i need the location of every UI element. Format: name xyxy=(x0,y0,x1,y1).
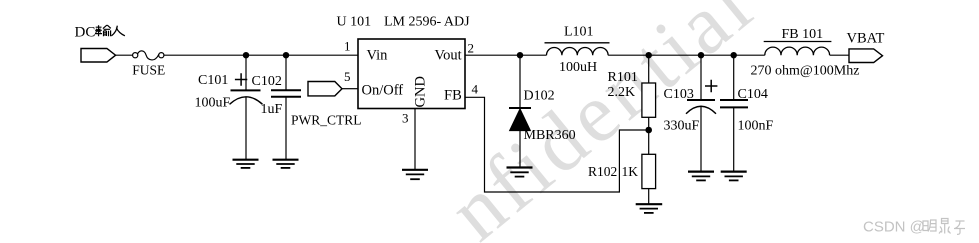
svg-text:L101: L101 xyxy=(564,25,594,40)
ground below U101 xyxy=(402,170,428,179)
resistor R102 1K xyxy=(642,130,656,204)
wire GND pin 3 down xyxy=(414,109,416,170)
svg-text:FB: FB xyxy=(444,88,462,104)
resistor R101 2.2K xyxy=(642,55,656,130)
junction at C101 xyxy=(243,52,249,58)
svg-text:DC: DC xyxy=(75,25,96,41)
wire Vout pin2 to inductor xyxy=(465,54,547,56)
junction at D102 xyxy=(517,52,523,58)
inductor L101 xyxy=(545,43,610,55)
svg-text:100uF: 100uF xyxy=(195,96,231,111)
watermark Confidential (decorative) xyxy=(432,0,771,243)
label C102 value 1uF xyxy=(252,74,283,117)
svg-text:C102: C102 xyxy=(252,74,282,89)
svg-text:C101: C101 xyxy=(198,73,228,88)
svg-text:2: 2 xyxy=(468,41,475,56)
svg-text:U 101: U 101 xyxy=(337,15,372,30)
svg-text:Vout: Vout xyxy=(435,48,462,64)
svg-text:1: 1 xyxy=(344,39,351,54)
capacitor C103 330uF xyxy=(686,55,717,171)
svg-text:VBAT: VBAT xyxy=(847,31,885,47)
fuse F (FUSE) xyxy=(133,51,164,60)
svg-text:FUSE: FUSE xyxy=(132,63,165,78)
junction at R101 xyxy=(646,52,652,58)
ground below C103 xyxy=(688,172,714,181)
svg-text:Vin: Vin xyxy=(367,48,389,64)
node DC input connector xyxy=(81,49,116,63)
ferrite bead FB101 xyxy=(764,42,832,56)
svg-text:C103: C103 xyxy=(664,87,694,102)
svg-text:4: 4 xyxy=(472,82,479,97)
svg-text:100uH: 100uH xyxy=(559,60,597,75)
svg-text:LM 2596- ADJ: LM 2596- ADJ xyxy=(384,15,470,30)
node PWR_CTRL connector xyxy=(308,82,358,96)
ground below C104 xyxy=(721,172,747,181)
svg-text:D102: D102 xyxy=(524,89,555,104)
wire DC connector to fuse xyxy=(116,54,133,56)
svg-text:C104: C104 xyxy=(738,87,768,102)
junction at C102 xyxy=(283,52,289,58)
svg-text:R101: R101 xyxy=(608,70,638,85)
watermark CSDN @明泉子 (decorative) xyxy=(863,219,965,236)
svg-text:FB 101: FB 101 xyxy=(782,27,824,42)
wire inductor to output rail xyxy=(608,54,765,56)
ground below D102 xyxy=(507,168,533,177)
label C101 value 100uF xyxy=(195,73,231,111)
svg-text:nfidential: nfidential xyxy=(432,0,771,243)
svg-text:On/Off: On/Off xyxy=(362,83,404,99)
svg-text:1K: 1K xyxy=(622,164,639,179)
svg-text:270 ohm@100Mhz: 270 ohm@100Mhz xyxy=(751,64,860,79)
diode D102 MBR360 xyxy=(509,55,531,167)
capacitor C102 xyxy=(271,55,301,159)
wire FB pin4 to feedback node xyxy=(465,97,649,192)
junction R101/R102 feedback node xyxy=(645,127,652,134)
ground below R102 xyxy=(636,204,663,213)
capacitor C104 100nF xyxy=(720,55,748,171)
svg-text:PWR_CTRL: PWR_CTRL xyxy=(291,113,362,128)
svg-text:MBR360: MBR360 xyxy=(524,128,576,143)
capacitor C101 xyxy=(230,55,263,159)
svg-text:100nF: 100nF xyxy=(738,119,774,134)
wire bead to VBAT xyxy=(830,54,849,56)
svg-text:3: 3 xyxy=(402,111,409,126)
svg-text:2.2K: 2.2K xyxy=(608,85,636,100)
svg-text:5: 5 xyxy=(344,69,351,84)
wire input rail fuse to U101 pin1 xyxy=(164,54,358,56)
label DC输入 xyxy=(75,25,125,41)
op-amp U101 LM2596-ADJ body xyxy=(358,39,465,109)
junction at C104 xyxy=(731,52,737,58)
svg-text:1uF: 1uF xyxy=(261,102,283,117)
svg-text:GND: GND xyxy=(413,76,429,107)
ground below C102 xyxy=(273,160,299,168)
node VBAT connector xyxy=(849,49,883,63)
junction at C103 xyxy=(698,52,704,58)
svg-text:R102: R102 xyxy=(588,164,617,179)
svg-text:CSDN @: CSDN @ xyxy=(863,219,925,236)
ground below C101 xyxy=(233,160,259,168)
svg-text:330uF: 330uF xyxy=(664,119,700,134)
